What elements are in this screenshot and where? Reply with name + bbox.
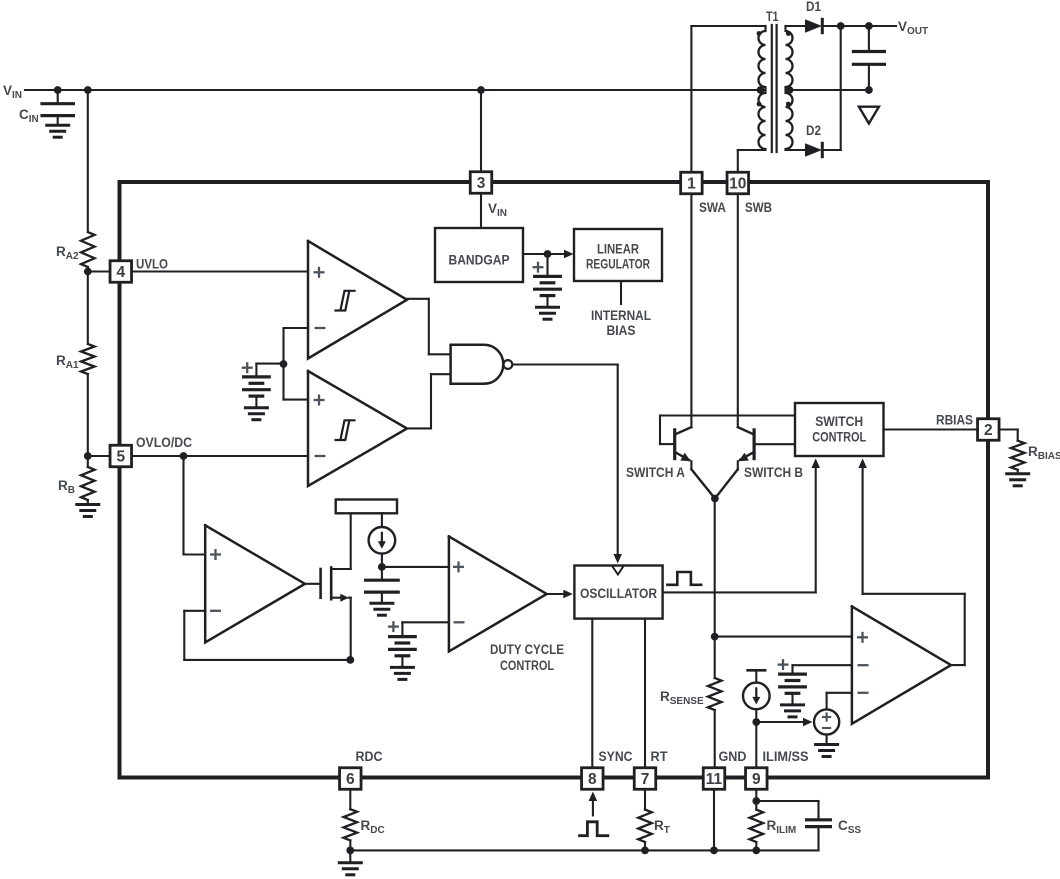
junction RDC bottom: [346, 847, 354, 855]
junction GND bottom: [710, 847, 718, 855]
arrow into oscillator top: [613, 554, 622, 564]
junction OVLO node: [180, 452, 188, 460]
transformer T1 secondary winding: [786, 26, 793, 150]
capacitor CIN: [42, 90, 73, 125]
svg-text:D1: D1: [806, 0, 821, 14]
plus sign comparator battery: [242, 362, 253, 373]
block LINEAR REGULATOR: [574, 229, 662, 281]
wire RBIAS to ground: [1017, 470, 1019, 474]
pin 8: [582, 768, 604, 790]
svg-text:SWA: SWA: [699, 200, 726, 215]
ground below RB: [77, 505, 99, 517]
capacitor CSS: [807, 820, 831, 851]
junction at pin5 tap: [84, 452, 92, 460]
label INTERNAL BIAS: [591, 308, 651, 338]
wire oscillator to pin 7: [644, 619, 646, 767]
op-amp U4 error amp: [205, 525, 305, 642]
label RDC pin6: [356, 749, 383, 764]
wire pin10 to primary bottom: [738, 150, 766, 172]
svg-text:DUTY CYCLE: DUTY CYCLE: [490, 642, 564, 657]
label UVLO: [136, 257, 168, 272]
label GND: [719, 749, 747, 764]
pin 6: [340, 768, 362, 790]
junction bandgap output: [544, 250, 552, 258]
svg-text:5: 5: [116, 448, 125, 465]
wire D2 to VOUT node: [822, 26, 840, 150]
label RB: [58, 478, 75, 496]
resistor RA2: [81, 232, 95, 267]
svg-text:8: 8: [588, 771, 597, 788]
svg-text:CONTROL: CONTROL: [812, 430, 866, 445]
transformer T1 core: [772, 25, 777, 152]
ground arrow at VOUT return: [859, 107, 879, 124]
phase dot primary lower: [757, 102, 762, 107]
wire OVLO node down to error amp: [184, 456, 206, 555]
ground below CIN: [47, 125, 69, 137]
plus sign bandgap battery: [533, 262, 544, 273]
plus sign U4: [210, 549, 221, 560]
wire battery to amp minus1: [793, 665, 852, 674]
minus sign U1: [315, 327, 326, 329]
junction secondary center tap: [786, 86, 794, 94]
wire sense node to amp plus: [715, 636, 852, 638]
notch at oscillator top: [613, 567, 624, 575]
svg-text:3: 3: [477, 175, 486, 192]
svg-text:SWITCH: SWITCH: [815, 414, 863, 429]
wire reference to battery: [256, 364, 283, 377]
resistor RSENSE: [708, 678, 722, 710]
wire pin 3 to bandgap: [480, 194, 482, 228]
label SWB: [745, 200, 772, 215]
reference battery at bandgap: [535, 254, 561, 319]
label RA1: [56, 353, 79, 371]
wire pin 1 to switch A collector: [690, 194, 692, 427]
label RT pin7: [651, 749, 669, 764]
label T1: [766, 9, 779, 24]
phase dot secondary lower: [786, 102, 791, 107]
resistor RA1: [81, 344, 95, 374]
wire U4 output to gate: [305, 583, 320, 585]
pin 9: [746, 768, 768, 790]
label CIN: [19, 107, 39, 125]
wire pin 4 to comparator U1: [132, 270, 308, 272]
wire base drive bracket: [660, 416, 795, 445]
label RILIM: [767, 818, 797, 836]
wire I1 to duty amp plus: [382, 554, 449, 567]
arrow into linear regulator: [564, 250, 574, 259]
wire emitters to sense node: [714, 499, 716, 637]
op-amp U6 current limit amp: [852, 606, 951, 723]
wire switch B base to switch control: [754, 443, 795, 445]
junction RILIM top: [752, 797, 760, 805]
label VIN: [3, 83, 22, 101]
wire switch control to pin 2: [884, 428, 978, 430]
svg-text:7: 7: [641, 771, 650, 788]
ground below I1 capacitor: [371, 603, 393, 615]
svg-text:GND: GND: [719, 749, 747, 764]
label SWITCH B: [744, 465, 803, 480]
wire VIN rail to RA2: [87, 90, 89, 232]
pin 4: [110, 261, 132, 283]
junction RT bottom: [641, 847, 649, 855]
wire U6 output loop to switch control: [863, 462, 965, 665]
pulse symbol at oscillator output: [667, 572, 701, 585]
plus sign amp battery: [778, 659, 789, 670]
label CSS: [838, 818, 861, 836]
resistor RILIM: [750, 810, 764, 842]
node VIN input wire: [25, 89, 765, 91]
label D1: [806, 0, 821, 14]
capacitor COUT: [853, 26, 884, 90]
block OSCILLATOR: [574, 566, 662, 619]
reference battery at duty amp: [390, 637, 416, 680]
wire RILIM node to CSS: [756, 801, 818, 820]
svg-text:4: 4: [116, 264, 125, 281]
label SWA: [699, 200, 726, 215]
ground below offset source: [816, 735, 838, 757]
label RDC: [361, 818, 385, 836]
diode D2: [805, 143, 822, 156]
minus sign U6 second: [858, 692, 869, 694]
label RBIAS pin2: [936, 413, 973, 428]
junction RILIM bottom: [752, 847, 760, 855]
label ILIM/SS: [763, 749, 809, 764]
svg-text:11: 11: [706, 771, 723, 788]
label RA2: [56, 244, 79, 262]
label RSENSE: [660, 689, 704, 707]
current source I2 top bar: [748, 670, 766, 682]
pin 1: [681, 172, 703, 194]
label DUTY CYCLE CONTROL: [490, 642, 564, 673]
svg-text:6: 6: [346, 771, 355, 788]
offset source V1 plusminus circle: [814, 709, 839, 734]
nand gate U3: [451, 345, 513, 384]
junction VOUT cap: [865, 22, 873, 30]
junction VIN rail at pin 3: [477, 86, 485, 94]
ground below RBIAS: [1007, 474, 1029, 486]
svg-text:RBIAS: RBIAS: [936, 413, 973, 428]
wire tap to pin 5: [88, 455, 110, 457]
svg-text:SWITCH B: SWITCH B: [744, 465, 803, 480]
label VOUT: [898, 19, 928, 37]
pin 2: [978, 419, 1000, 441]
wire U5 minus to reference battery: [402, 622, 449, 636]
label OVLO/DC: [136, 435, 192, 450]
wire I2 to pin 9: [755, 709, 757, 767]
svg-text:SWITCH A: SWITCH A: [626, 465, 685, 480]
wire RA1 to RB: [87, 374, 89, 467]
svg-text:RDC: RDC: [356, 749, 383, 764]
wire secondary top to D1: [786, 25, 806, 27]
hysteresis symbol U1: [336, 291, 355, 311]
svg-text:10: 10: [729, 175, 746, 192]
transistor Q3 switch B: [715, 427, 754, 498]
pin 7: [634, 768, 656, 790]
junction I1 output: [378, 563, 386, 571]
comparator U1 UVLO: [308, 241, 407, 359]
label VIN pin3: [488, 201, 507, 219]
arrow U6 into switch control: [858, 459, 867, 469]
wire pin 10 to switch B collector: [737, 194, 739, 427]
junction I2 output: [752, 718, 760, 726]
wire secondary center tap: [786, 89, 869, 91]
wire pin 11 to bottom rail: [713, 790, 715, 850]
wire supply bar to current source I1: [381, 513, 383, 527]
junction sense node: [711, 633, 719, 641]
svg-text:1: 1: [687, 175, 696, 192]
phase dot secondary top: [786, 31, 791, 36]
IC block outline: [120, 182, 989, 778]
block SWITCH CONTROL: [795, 403, 884, 456]
minus sign U6 first: [858, 664, 869, 666]
resistor RDC: [344, 809, 358, 840]
minus sign U4: [210, 610, 221, 612]
wire NAND output to oscillator: [513, 365, 618, 556]
label SYNC: [599, 749, 633, 764]
pin 5: [110, 445, 132, 467]
label D2: [806, 123, 821, 138]
wire sense node to RSENSE: [714, 637, 716, 678]
wire U4 feedback bracket: [184, 611, 350, 660]
wire oscillator output to switch control: [663, 462, 816, 592]
transistor Q2 switch A: [675, 427, 715, 498]
wire tap to pin 4: [88, 270, 110, 272]
pin 10: [727, 172, 749, 194]
plus sign U2: [314, 395, 325, 406]
wire secondary bottom to D2: [786, 149, 806, 151]
wire offset source to amp minus2: [827, 693, 852, 710]
diode D1: [805, 19, 822, 32]
svg-text:REGULATOR: REGULATOR: [586, 257, 650, 272]
junction on VIN rail at RA2 divider: [84, 86, 92, 94]
junction feedback node: [346, 656, 354, 664]
resistor RB: [81, 467, 95, 500]
wire RB to ground: [87, 500, 89, 505]
bottom rail wire: [350, 849, 818, 851]
wire pin 6 to RDC: [349, 790, 351, 809]
svg-text:OSCILLATOR: OSCILLATOR: [580, 586, 657, 601]
junction VIN rail at primary center tap: [757, 86, 765, 94]
svg-text:LINEAR: LINEAR: [597, 242, 639, 257]
wire RT to bottom rail: [644, 842, 646, 850]
supply bar: [336, 500, 397, 514]
arrow oscillator into switch control: [811, 459, 820, 469]
wire D1 to VOUT: [822, 25, 896, 27]
wire U2 output to NAND: [407, 374, 451, 428]
svg-text:INTERNAL: INTERNAL: [591, 308, 651, 323]
current source I2: [743, 683, 770, 710]
wire RILIM to bottom rail: [755, 842, 757, 850]
svg-text:BANDGAP: BANDGAP: [449, 253, 510, 268]
wire RDC to bottom rail: [349, 840, 351, 850]
wire RSENSE to pin 11: [714, 710, 716, 767]
wire pin1 to primary top: [691, 26, 765, 172]
wire oscillator to pin 8: [591, 619, 593, 767]
wire mosfet source to feedback node: [350, 598, 352, 660]
wire pin 7 to RT: [644, 790, 646, 810]
wire mosfet drain to supply bar: [350, 514, 352, 569]
current source I1: [369, 527, 396, 554]
junction at pin4 tap: [84, 268, 92, 276]
op-amp U5 duty cycle control: [449, 536, 547, 651]
svg-text:D2: D2: [806, 123, 821, 138]
svg-text:CONTROL: CONTROL: [500, 658, 554, 673]
junction COUT bottom: [865, 86, 873, 94]
plus sign U6: [857, 632, 868, 643]
reference battery at comparators: [244, 377, 270, 420]
pulse symbol at SYNC: [580, 822, 608, 836]
wire pin 5 to comparator U2: [132, 455, 308, 457]
resistor RT: [638, 810, 652, 842]
wire pin 2 to RBIAS resistor: [999, 430, 1018, 441]
comparator U2 OVLO: [308, 371, 407, 486]
phase dot primary top: [757, 31, 762, 36]
svg-text:ILIM/SS: ILIM/SS: [763, 749, 809, 764]
wire VIN rail to pin 3: [480, 90, 482, 171]
svg-text:9: 9: [752, 771, 761, 788]
ground below RDC: [339, 850, 361, 874]
plus sign U1: [314, 267, 325, 278]
block BANDGAP: [435, 228, 523, 282]
arrow U5 output into oscillator: [547, 590, 573, 599]
label SWITCH A: [626, 465, 685, 480]
junction switch emitters: [711, 495, 719, 503]
hysteresis symbol U2: [336, 420, 355, 440]
junction on VIN rail at CIN: [54, 86, 62, 94]
svg-text:SYNC: SYNC: [599, 749, 633, 764]
junction comparator reference: [280, 360, 288, 368]
plus sign U5: [453, 561, 464, 572]
wire RA2 to RA1: [87, 267, 89, 344]
wire bandgap to linear regulator: [523, 253, 569, 255]
svg-text:T1: T1: [766, 9, 779, 24]
transformer T1 primary winding: [759, 26, 766, 150]
pin 3: [470, 172, 492, 194]
label RBIAS: [1028, 444, 1060, 462]
wire pin 9 to RILIM: [755, 790, 757, 810]
wire linear regulator to internal bias: [620, 281, 622, 304]
arrow into pin 8 SYNC: [589, 792, 598, 816]
wire U1 output to NAND: [407, 299, 451, 355]
transistor Q1 mosfet: [321, 568, 351, 602]
pin 11: [703, 768, 725, 790]
label RT: [654, 818, 670, 836]
svg-text:UVLO: UVLO: [136, 257, 168, 272]
junction D1 output: [837, 22, 845, 30]
minus sign U5: [454, 621, 465, 623]
resistor RBIAS: [1011, 441, 1025, 470]
svg-text:OVLO/DC: OVLO/DC: [136, 435, 192, 450]
arrow I2 to offset source: [756, 718, 812, 727]
svg-text:2: 2: [984, 422, 993, 439]
wire U1 minus bracket: [284, 328, 309, 400]
minus sign U2: [315, 455, 326, 457]
capacitor at I1 node: [366, 567, 399, 603]
svg-text:SWB: SWB: [745, 200, 772, 215]
svg-text:RT: RT: [651, 749, 669, 764]
plus sign duty battery: [388, 621, 399, 632]
svg-text:BIAS: BIAS: [607, 323, 636, 338]
reference battery at amp minus1: [780, 674, 806, 717]
